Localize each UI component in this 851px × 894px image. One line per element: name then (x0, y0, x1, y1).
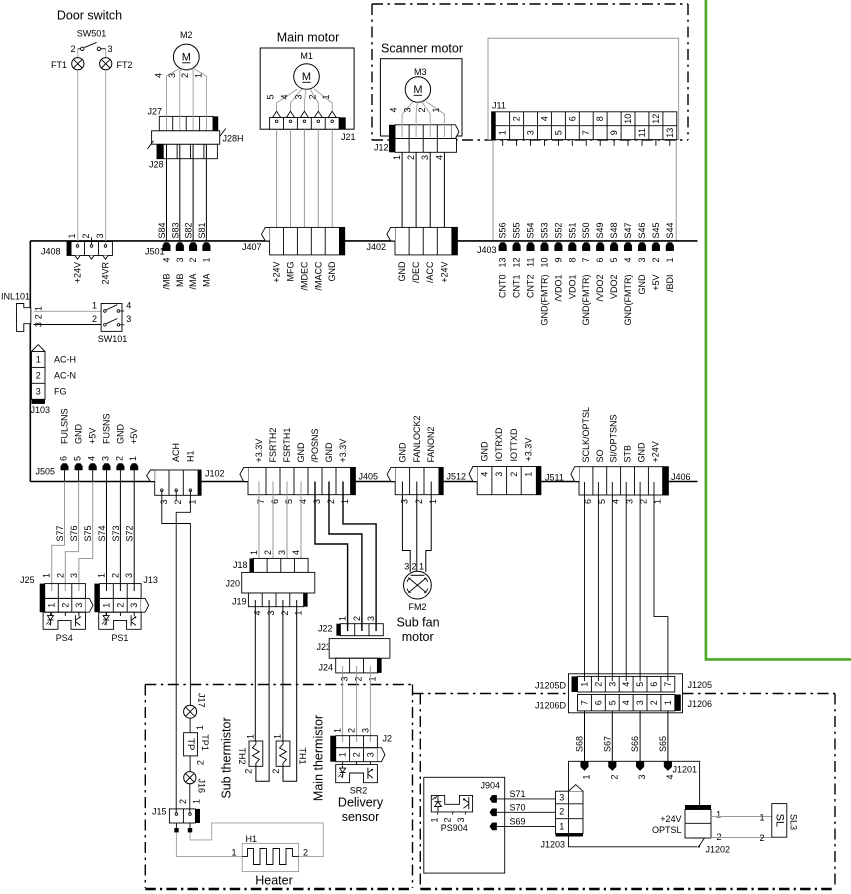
svg-text:/MDEC: /MDEC (299, 261, 309, 291)
svg-text:1: 1 (128, 456, 138, 461)
photosensor PS904 symbol (430, 795, 473, 833)
heater title (255, 874, 293, 888)
connector J15 (152, 799, 201, 823)
svg-text:S81: S81 (197, 222, 207, 238)
svg-text:TH2: TH2 (237, 747, 247, 764)
svg-text:3: 3 (167, 73, 177, 78)
connector J512 (387, 467, 466, 494)
svg-text:2: 2 (81, 233, 91, 238)
svg-text:MFG: MFG (286, 262, 296, 282)
svg-text:J18: J18 (233, 560, 248, 570)
svg-text:S48: S48 (609, 222, 619, 238)
svg-text:11: 11 (637, 128, 647, 137)
wire J102 pin3 to J17 (162, 490, 191, 705)
connector J408 (41, 233, 112, 259)
wire FT1 to J408 pin1 (77, 70, 79, 246)
svg-text:IOTRXD: IOTRXD (494, 427, 504, 462)
thermal protector TP1 (184, 733, 210, 756)
svg-text:1: 1 (193, 73, 203, 78)
svg-text:10: 10 (623, 114, 633, 124)
wires J405 pins 7-4 to J18 (259, 482, 301, 567)
svg-text:/POSNS: /POSNS (310, 428, 320, 462)
svg-text:S44: S44 (665, 222, 675, 238)
svg-text:J511: J511 (545, 473, 564, 483)
motor M1 label (300, 51, 313, 61)
heater H1 (231, 834, 308, 872)
svg-text:1: 1 (195, 725, 205, 730)
svg-text:GND: GND (327, 261, 337, 282)
lamp terminal J17 (184, 693, 207, 718)
svg-text:3: 3 (124, 573, 134, 578)
motor M3 symbol (405, 77, 430, 102)
svg-text:FULSNS: FULSNS (60, 408, 70, 444)
svg-text:2: 2 (512, 116, 522, 121)
svg-text:J1202: J1202 (706, 845, 731, 855)
thermistor TH1 (271, 734, 308, 774)
svg-text:1: 1 (34, 306, 44, 311)
svg-text:J1201: J1201 (673, 765, 698, 775)
svg-text:2: 2 (609, 775, 619, 780)
delivery sensor SR2 (336, 765, 378, 796)
svg-text:1: 1 (47, 603, 57, 608)
svg-text:J28H: J28H (223, 134, 244, 144)
svg-text:1: 1 (36, 355, 41, 365)
connector J1203 (541, 785, 584, 850)
svg-text:1: 1 (559, 821, 564, 831)
svg-text:2: 2 (406, 155, 416, 160)
svg-text:/VDO1: /VDO1 (553, 275, 563, 302)
svg-text:Main thermistor: Main thermistor (312, 715, 326, 801)
svg-text:FT1: FT1 (51, 60, 67, 70)
wire TH1 to J19 pin1 (283, 600, 297, 781)
motor M2 symbol (173, 44, 199, 70)
svg-text:2: 2 (110, 573, 120, 578)
svg-text:S51: S51 (567, 222, 577, 238)
svg-text:2: 2 (70, 44, 75, 54)
svg-text:CNT0: CNT0 (498, 275, 508, 299)
wires J12 to J402 with pin numbers 4 3 2 1 (392, 152, 445, 241)
svg-text:M3: M3 (414, 67, 427, 77)
svg-text:2: 2 (352, 752, 362, 757)
fuser PCB box J1201 (569, 761, 700, 847)
thermistor TH2 (237, 734, 263, 774)
svg-text:M: M (302, 71, 311, 83)
svg-text:3: 3 (360, 728, 370, 733)
connector J19 (232, 593, 308, 607)
J405 signal labels (254, 428, 348, 463)
svg-text:PS1: PS1 (111, 633, 128, 643)
svg-text:4: 4 (162, 258, 172, 263)
svg-text:J15: J15 (152, 807, 167, 817)
connector J22 (318, 616, 383, 636)
wires J406 to J1205 (585, 482, 668, 681)
svg-text:2: 2 (347, 728, 357, 733)
svg-text:S66: S66 (630, 736, 640, 752)
svg-text:GND: GND (324, 442, 334, 463)
svg-text:FM2: FM2 (409, 602, 427, 612)
svg-text:J22: J22 (318, 624, 333, 634)
svg-text:3: 3 (559, 793, 564, 803)
svg-text:3: 3 (635, 700, 645, 705)
svg-text:2: 2 (271, 769, 281, 774)
svg-text:GND: GND (397, 261, 407, 282)
wire TP1 to J16 (190, 756, 205, 772)
svg-text:Sub fan: Sub fan (396, 616, 439, 630)
connector J20 (225, 572, 314, 593)
svg-text:J27: J27 (148, 107, 163, 117)
svg-text:7: 7 (581, 130, 591, 135)
svg-text:2: 2 (180, 73, 190, 78)
wire vertical link bus1 to bus2 (29, 241, 31, 482)
svg-text:1: 1 (498, 130, 508, 135)
wire J15 pin2 to heater H1 pin1 (176, 832, 242, 856)
svg-text:/MB: /MB (162, 274, 172, 290)
svg-text:1: 1 (273, 734, 283, 739)
svg-text:1: 1 (524, 472, 534, 477)
wire SW501 to FT1 (77, 49, 79, 58)
wire FT2 to J408 pin3 (105, 70, 107, 246)
svg-text:1: 1 (419, 562, 424, 572)
svg-text:3: 3 (36, 386, 41, 396)
svg-text:M1: M1 (300, 51, 313, 61)
svg-text:1: 1 (431, 107, 441, 112)
svg-text:S45: S45 (651, 222, 661, 238)
svg-text:3: 3 (637, 775, 647, 780)
svg-text:Main motor: Main motor (277, 31, 340, 45)
svg-text:6: 6 (270, 499, 280, 504)
J511 signal labels GND IOTRXD IOTTXD +3.3V (480, 427, 534, 462)
svg-text:CNT2: CNT2 (526, 275, 536, 299)
svg-text:4: 4 (291, 550, 301, 555)
svg-text:SCLK/OPTSL: SCLK/OPTSL (581, 407, 591, 463)
connector J25 (20, 573, 93, 616)
svg-text:9: 9 (609, 130, 619, 135)
J15 crimp terminals (174, 823, 192, 832)
svg-text:J2: J2 (383, 734, 393, 744)
svg-text:6: 6 (59, 456, 69, 461)
svg-text:4: 4 (126, 300, 131, 310)
svg-text:8: 8 (567, 258, 577, 263)
svg-text:J102: J102 (205, 469, 225, 479)
svg-text:3: 3 (403, 107, 413, 112)
svg-text:7: 7 (663, 682, 673, 687)
svg-text:2: 2 (411, 562, 416, 572)
J18 pin numbers 1 2 3 4 (249, 550, 301, 555)
svg-text:SR2: SR2 (350, 786, 368, 796)
wire J16 to J15 pin1 (189, 784, 191, 813)
svg-text:7: 7 (580, 700, 590, 705)
svg-text:2: 2 (443, 818, 453, 823)
connector J511 (469, 467, 564, 495)
svg-text:5: 5 (284, 499, 294, 504)
svg-text:1: 1 (367, 677, 377, 682)
svg-text:4: 4 (621, 682, 631, 687)
wire DC power bus line 1 (30, 240, 697, 242)
svg-text:J406: J406 (671, 472, 691, 482)
svg-text:Delivery: Delivery (338, 796, 384, 810)
svg-text:1: 1 (97, 573, 107, 578)
wire DC power bus line 2 (30, 481, 697, 483)
J512 pin numbers 3 2 1 (399, 499, 438, 504)
svg-text:2: 2 (509, 472, 519, 477)
svg-text:S74: S74 (97, 525, 107, 541)
J505 signal labels FULSNS GND +5V FUSNS GND +5V (60, 408, 140, 444)
wires J1206 to J1201 signals S68 S67 S66 S65 (575, 711, 668, 762)
svg-text:4: 4 (87, 456, 97, 461)
svg-text:AC-N: AC-N (54, 370, 76, 380)
svg-text:8: 8 (595, 116, 605, 121)
J406 pin numbers 6-1 (583, 499, 663, 504)
svg-text:S52: S52 (553, 222, 563, 238)
svg-text:Door switch: Door switch (57, 9, 122, 23)
svg-text:J407: J407 (242, 242, 262, 252)
svg-text:3: 3 (637, 258, 647, 263)
svg-text:4: 4 (280, 94, 290, 99)
svg-text:5: 5 (266, 94, 276, 99)
svg-text:+3.3V: +3.3V (524, 438, 534, 462)
svg-text:J16: J16 (197, 779, 207, 794)
svg-text:GND: GND (74, 424, 84, 445)
wire TH2 to J19 pin3 (256, 600, 269, 781)
svg-text:S55: S55 (512, 222, 522, 238)
svg-text:J505: J505 (35, 467, 55, 477)
wires J505 to J25 and J13 signals S77-S72 (52, 482, 135, 592)
svg-text:S77: S77 (55, 525, 65, 541)
svg-text:S67: S67 (602, 736, 612, 752)
svg-text:4: 4 (480, 472, 490, 477)
svg-text:2: 2 (716, 832, 721, 842)
motor M2 label (180, 30, 193, 40)
wire J102 pin1 to J15 pin2 (176, 490, 190, 813)
sub fan motor FM2 symbol (404, 571, 432, 612)
svg-text:2: 2 (559, 807, 564, 817)
J403 signal labels S56-S44 (498, 222, 675, 238)
svg-text:/VDO2: /VDO2 (595, 275, 605, 302)
svg-text:2: 2 (196, 760, 206, 765)
svg-text:MB: MB (175, 274, 185, 288)
svg-text:1: 1 (333, 728, 343, 733)
svg-text:J1206D: J1206D (535, 701, 567, 711)
connector J2 (330, 728, 392, 765)
svg-text:S54: S54 (526, 222, 536, 238)
wires M2 to J27 with pin numbers 4 3 2 1 (154, 69, 207, 141)
svg-text:+3.3V: +3.3V (254, 439, 264, 463)
wires J21 to J407 with pin numbers 5 4 3 2 1 (266, 129, 332, 241)
svg-text:SO: SO (595, 449, 605, 462)
svg-text:2: 2 (188, 258, 198, 263)
svg-text:J25: J25 (20, 575, 35, 585)
svg-text:S56: S56 (498, 222, 508, 238)
svg-text:3: 3 (95, 233, 105, 238)
svg-text:3: 3 (366, 616, 376, 621)
connector J505 pins on bus (35, 456, 138, 482)
AC inlet INL101 (1, 292, 44, 332)
wires J405 pins 3 2 1 to J22 (315, 482, 376, 632)
svg-text:SI/OPTSNS: SI/OPTSNS (609, 414, 619, 462)
svg-text:S50: S50 (581, 222, 591, 238)
svg-text:S83: S83 (170, 222, 180, 238)
svg-text:1: 1 (665, 258, 675, 263)
svg-text:J20: J20 (225, 579, 240, 589)
svg-text:6: 6 (593, 700, 603, 705)
svg-text:SW101: SW101 (98, 334, 128, 344)
svg-text:S69: S69 (510, 816, 526, 826)
svg-text:4: 4 (252, 611, 262, 616)
J103 signal labels AC-H AC-N FG (54, 355, 76, 397)
svg-text:+24V: +24V (73, 262, 83, 283)
svg-text:M: M (182, 52, 191, 64)
svg-text:ACH: ACH (171, 443, 181, 462)
svg-text:+3.3V: +3.3V (338, 439, 348, 463)
svg-text:1: 1 (428, 499, 438, 504)
wires J11 pin stubs (503, 140, 670, 146)
svg-text:2: 2 (36, 370, 41, 380)
wire J102 pin2 stub (175, 490, 177, 500)
connector J103 (31, 345, 51, 415)
svg-text:sensor: sensor (342, 810, 380, 824)
svg-text:9: 9 (553, 258, 563, 263)
photosensor PS4 (43, 612, 85, 643)
svg-text:+24V: +24V (650, 441, 660, 462)
svg-text:7: 7 (581, 258, 591, 263)
svg-text:6: 6 (567, 116, 577, 121)
svg-text:OPTSL: OPTSL (652, 825, 682, 835)
svg-text:13: 13 (665, 128, 675, 138)
J12 pin numbers 1 2 3 4 (392, 155, 444, 160)
svg-text:3: 3 (420, 155, 430, 160)
svg-text:2: 2 (263, 550, 273, 555)
svg-text:SL3: SL3 (789, 814, 799, 830)
svg-text:FANLOCK2: FANLOCK2 (412, 415, 422, 462)
svg-text:1: 1 (392, 155, 402, 160)
svg-text:MA: MA (201, 274, 211, 288)
svg-text:J103: J103 (31, 405, 51, 415)
svg-text:J1206: J1206 (688, 699, 713, 709)
main motor title (277, 31, 340, 45)
svg-text:FANON2: FANON2 (426, 426, 436, 462)
connector J405 (240, 467, 378, 494)
svg-text:1: 1 (338, 752, 348, 757)
svg-text:J408: J408 (41, 247, 61, 257)
fuser unit dashed enclosure (145, 685, 412, 890)
svg-text:2: 2 (60, 603, 70, 608)
svg-text:GND(FMTR): GND(FMTR) (540, 275, 550, 326)
J102 signal labels ACH H1 (171, 443, 195, 462)
svg-text:2: 2 (178, 799, 188, 804)
delivery sensor title (338, 796, 384, 825)
svg-text:Scanner motor: Scanner motor (381, 42, 463, 56)
connector J23 (316, 639, 389, 659)
svg-text:M2: M2 (180, 30, 193, 40)
J512 signal labels GND FANLOCK2 FANON2 (397, 415, 436, 462)
connector J12 (374, 125, 459, 153)
svg-text:2: 2 (114, 456, 124, 461)
svg-text:S75: S75 (83, 525, 93, 541)
connector J102 (147, 469, 225, 496)
svg-text:2: 2 (92, 314, 97, 324)
svg-text:S68: S68 (575, 736, 585, 752)
scanner motor dashed enclosure (372, 4, 688, 140)
svg-text:2: 2 (244, 769, 254, 774)
svg-text:TP: TP (185, 738, 196, 750)
motor M3 label (414, 67, 427, 77)
svg-text:INL101: INL101 (1, 292, 30, 302)
svg-text:VDO2: VDO2 (609, 275, 619, 300)
svg-text:5: 5 (635, 682, 645, 687)
lamp terminal J16 (184, 772, 207, 793)
wire J15 pin1 to heater H1 pin2 (190, 823, 323, 857)
svg-text:S47: S47 (623, 222, 633, 238)
svg-text:/ACC: /ACC (425, 261, 435, 283)
svg-text:/MA: /MA (188, 274, 198, 290)
switch SW101 (92, 300, 131, 344)
svg-text:TH1: TH1 (298, 747, 308, 764)
svg-text:GND: GND (296, 442, 306, 463)
svg-text:VDO1: VDO1 (567, 275, 577, 300)
svg-text:H1: H1 (246, 834, 258, 844)
wires J1202 to SL3 (711, 813, 772, 844)
svg-text:M: M (413, 84, 422, 96)
wires J512 to FM2 (402, 482, 431, 573)
svg-text:5: 5 (607, 700, 617, 705)
svg-text:1: 1 (430, 818, 440, 823)
svg-text:4: 4 (665, 775, 675, 780)
connector J501 pins on bus (145, 243, 211, 290)
option unit dashed enclosure (413, 694, 836, 890)
svg-text:3: 3 (404, 562, 409, 572)
svg-text:3: 3 (340, 677, 350, 682)
svg-text:2: 2 (593, 682, 603, 687)
wires M3 fan-out with pin numbers 4 3 2 1 (389, 102, 445, 138)
svg-text:FT2: FT2 (117, 60, 133, 70)
svg-text:S73: S73 (111, 525, 121, 541)
svg-text:S71: S71 (510, 789, 526, 799)
connector J1201 pins (581, 761, 697, 779)
wire INL101 pin1 to SW101 (34, 310, 104, 312)
svg-text:J13: J13 (143, 575, 158, 585)
svg-text:J21: J21 (341, 132, 356, 142)
svg-text:/DEC: /DEC (411, 261, 421, 283)
svg-text:GND: GND (637, 274, 647, 295)
sub thermistor title (220, 717, 234, 798)
svg-text:3: 3 (494, 472, 504, 477)
svg-text:J11: J11 (492, 101, 506, 111)
svg-text:IOTTXD: IOTTXD (509, 428, 519, 461)
solenoid SL3 (772, 804, 799, 838)
svg-text:2: 2 (352, 616, 362, 621)
svg-text:FSRTH1: FSRTH1 (282, 428, 292, 463)
svg-text:3: 3 (266, 611, 276, 616)
svg-text:J1205D: J1205D (535, 681, 567, 691)
svg-text:1: 1 (42, 573, 52, 578)
svg-text:GND(FMTR): GND(FMTR) (581, 275, 591, 326)
svg-text:Heater: Heater (255, 874, 293, 888)
scanner motor title (381, 42, 463, 56)
formatter block J11 outer box (488, 38, 679, 139)
svg-text:3: 3 (456, 818, 466, 823)
green page boundary line (706, 0, 851, 659)
svg-text:+5V: +5V (651, 275, 661, 291)
sub fan motor title (396, 616, 439, 645)
svg-text:2: 2 (173, 500, 183, 505)
svg-text:1: 1 (759, 813, 764, 823)
svg-text:GND: GND (397, 442, 407, 463)
J406 signal labels SCLK/OPTSL SO SI/OPTSNS STB GND +24V (581, 407, 661, 463)
svg-text:STB: STB (623, 445, 633, 463)
connector J24 (318, 658, 381, 681)
svg-text:TP1: TP1 (200, 734, 210, 751)
svg-text:10: 10 (540, 258, 550, 268)
